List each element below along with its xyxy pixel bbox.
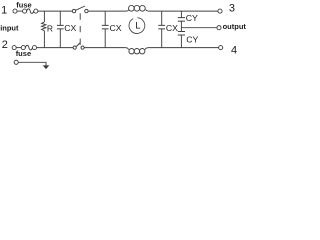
svg-text:CX: CX [110, 23, 122, 33]
switch S1 left contact circle [72, 9, 75, 12]
wire CY1 to CY2 [180, 21, 182, 31]
wire choke top to terminal 3 [149, 10, 218, 12]
earth mid wire to output terminal [181, 27, 217, 29]
terminal 1 circle [13, 9, 17, 13]
svg-text:2: 2 [2, 39, 8, 51]
svg-text:output: output [223, 22, 247, 31]
capacitor CY1 lead top [180, 11, 182, 18]
capacitor CX2 plates [102, 25, 109, 29]
svg-text:CY: CY [186, 35, 198, 45]
svg-text:fuse: fuse [16, 49, 31, 58]
fuse F1 left circle [23, 9, 27, 13]
capacitor CX3 plates [158, 25, 165, 29]
choke L top winding [126, 10, 129, 12]
input earth ground arrow [43, 65, 50, 69]
svg-text:3: 3 [229, 2, 235, 14]
earth output terminal circle [217, 26, 221, 30]
switch mechanical link (dashed) [79, 13, 81, 45]
switch S2 left contact circle [73, 46, 76, 49]
wire terminal1 to fuse F1 [17, 10, 22, 12]
svg-text:fuse: fuse [16, 0, 31, 9]
svg-text:input: input [0, 24, 19, 33]
svg-text:L: L [135, 21, 140, 32]
capacitor CY2 lead bottom [180, 35, 182, 48]
fuse F2 left circle [21, 46, 25, 50]
resistor R zigzag [42, 22, 46, 31]
switch S2 blade [76, 43, 80, 47]
capacitor CX1 leads [59, 11, 61, 48]
capacitor CY1 plates [178, 18, 185, 22]
svg-text:4: 4 [231, 45, 237, 57]
capacitor CX3 leads [161, 11, 163, 48]
svg-text:R: R [47, 23, 53, 33]
input earth terminal circle [14, 60, 18, 64]
terminal 3 circle [218, 9, 222, 13]
switch S1 right contact circle [85, 9, 88, 12]
wire switch S1 to choke top [88, 10, 126, 12]
fuse F2 wave element [25, 45, 32, 50]
wire fuse F1 to switch S1 [38, 10, 72, 12]
wire terminal2 to fuse F2 [16, 47, 21, 49]
capacitor CX1 plates [57, 25, 64, 29]
wire switch S2 to choke bottom [84, 47, 126, 49]
terminal 2 circle [12, 46, 16, 50]
fuse F1 wave element [27, 9, 34, 14]
wire fuse F2 to switch S2 [37, 47, 74, 49]
switch S2 right contact circle [81, 46, 84, 49]
resistor R vertical leads [43, 11, 45, 22]
fuse F1 right circle [34, 9, 38, 13]
capacitor CY2 plates [178, 32, 185, 36]
capacitor CX2 leads [104, 11, 106, 48]
choke L circle symbol [129, 18, 145, 34]
choke L bottom winding [126, 48, 129, 50]
switch S1 blade [76, 6, 85, 10]
svg-text:CY: CY [186, 13, 198, 23]
svg-text:CX: CX [166, 23, 178, 33]
fuse F2 right circle [32, 46, 36, 50]
input earth wire [18, 62, 46, 65]
svg-text:1: 1 [1, 5, 7, 17]
wire choke bottom to terminal 4 [148, 47, 218, 49]
terminal 4 circle [219, 46, 223, 50]
svg-text:CX: CX [64, 23, 76, 33]
